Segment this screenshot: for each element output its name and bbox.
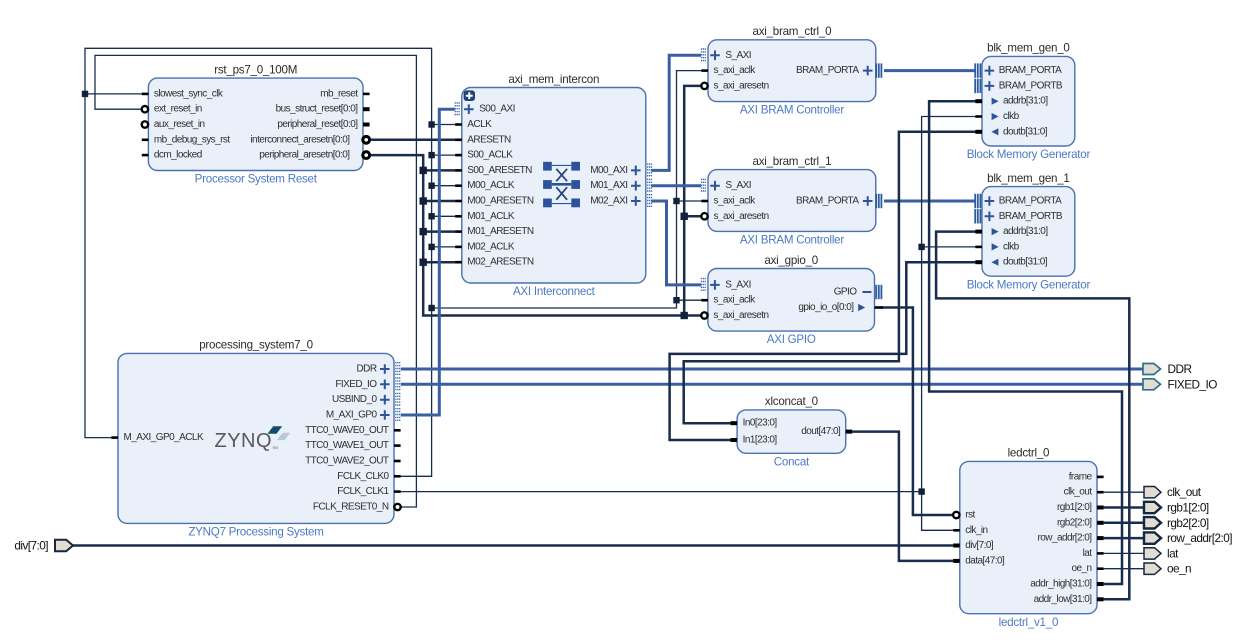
port oe_n bbox=[1144, 562, 1191, 576]
pin s_axi_aresetn ctrl0 bbox=[701, 80, 768, 91]
pin s_axi_aclk ctrl1 bbox=[701, 196, 756, 207]
pin FCLK_CLK1 bbox=[337, 486, 400, 497]
port div[7:0] bbox=[14, 539, 73, 553]
junction M01_ACLK bbox=[428, 213, 434, 219]
svg-text:addr_high[31:0]: addr_high[31:0] bbox=[1030, 579, 1092, 590]
block ledctrl_0 ledctrl_v1_0 bbox=[960, 447, 1097, 629]
pin M01_ARESETN bbox=[455, 226, 534, 237]
svg-text:dcm_locked: dcm_locked bbox=[154, 150, 202, 161]
svg-text:lat: lat bbox=[1167, 546, 1179, 560]
pin rgb1[2:0] bbox=[1057, 502, 1104, 513]
wire net dout to ledctrl data bbox=[852, 432, 953, 561]
block rst_ps7_0_100M Processor System Reset bbox=[148, 63, 363, 185]
svg-text:s_axi_aclk: s_axi_aclk bbox=[713, 295, 756, 306]
pin TTC0_WAVE0_OUT bbox=[305, 425, 401, 436]
pin BRAM_PORTA gen0 bbox=[975, 63, 1062, 77]
pin rgb2[2:0] bbox=[1057, 517, 1104, 528]
junction gpio aresetn bbox=[681, 312, 688, 319]
pin M00_AXI bbox=[590, 163, 651, 177]
svg-text:lat: lat bbox=[1083, 548, 1093, 559]
pin In0[23:0] bbox=[731, 418, 778, 429]
pin M02_AXI bbox=[590, 194, 651, 208]
pin rst bbox=[953, 510, 975, 521]
wire net gen0 doutb to In0 bbox=[684, 132, 976, 423]
svg-text:rgb1[2:0]: rgb1[2:0] bbox=[1167, 501, 1209, 515]
wire rgb1 to port bbox=[1104, 506, 1144, 509]
pin clkb gen0 bbox=[975, 111, 1019, 122]
svg-text:data[47:0]: data[47:0] bbox=[965, 555, 1005, 566]
svg-text:Block Memory Generator: Block Memory Generator bbox=[967, 148, 1091, 161]
pin DDR bbox=[356, 362, 399, 376]
wire FCLK_CLK0 east branch to s_axi_aclk pins bbox=[432, 71, 702, 308]
svg-text:Processor System Reset: Processor System Reset bbox=[195, 173, 318, 186]
svg-text:M01_ARESETN: M01_ARESETN bbox=[467, 226, 534, 237]
wire peripheral_aresetn tap S00_ARESETN bbox=[423, 169, 455, 172]
wire net FCLK_CLK1 trunk bbox=[401, 117, 976, 492]
pin gpio_io_o[0:0] bbox=[798, 302, 883, 313]
svg-text:div[7:0]: div[7:0] bbox=[965, 540, 994, 551]
block axi_bram_ctrl_0 AXI BRAM Controller bbox=[708, 25, 876, 117]
pin USBIND_0 bbox=[332, 393, 400, 407]
block blk_mem_gen_0 Block Memory Generator bbox=[967, 42, 1091, 161]
svg-text:FCLK_CLK1: FCLK_CLK1 bbox=[337, 486, 389, 497]
pin mb_debug_sys_rst bbox=[142, 134, 231, 145]
junction aclk east bbox=[428, 305, 434, 311]
pin BRAM_PORTA gen1 bbox=[975, 194, 1062, 208]
pin TTC0_WAVE1_OUT bbox=[305, 440, 401, 451]
wire peripheral_aresetn north branch to s_axi_aresetn pins bbox=[684, 86, 701, 316]
svg-text:clkb: clkb bbox=[1003, 111, 1020, 122]
svg-text:addrb[31:0]: addrb[31:0] bbox=[1003, 226, 1048, 237]
svg-text:interconnect_aresetn[0:0]: interconnect_aresetn[0:0] bbox=[250, 134, 350, 145]
junction M00_ARESETN bbox=[420, 197, 427, 204]
wire net interconnect_aresetn bbox=[370, 139, 455, 142]
svg-text:USBIND_0: USBIND_0 bbox=[332, 394, 377, 405]
svg-text:mb_reset: mb_reset bbox=[320, 88, 358, 99]
pin S00_ARESETN bbox=[455, 165, 532, 176]
wire FCLK_CLK0 tap axi_gpio_0 s_axi_aclk bbox=[677, 299, 702, 301]
svg-text:M_AXI_GP0_ACLK: M_AXI_GP0_ACLK bbox=[124, 432, 204, 443]
svg-text:GPIO: GPIO bbox=[834, 287, 858, 298]
svg-text:row_addr[2:0]: row_addr[2:0] bbox=[1167, 531, 1232, 545]
wire net addr_high to gen0 addrb bbox=[929, 101, 1122, 584]
wire rgb2 to port bbox=[1104, 522, 1144, 525]
wire oe_n to port bbox=[1104, 568, 1144, 570]
svg-text:M02_AXI: M02_AXI bbox=[590, 196, 627, 207]
svg-text:ledctrl_v1_0: ledctrl_v1_0 bbox=[999, 616, 1059, 629]
junction gpio aclk bbox=[673, 297, 679, 303]
pin ext_reset_in bbox=[142, 104, 202, 115]
wire net M00_AXI to axi_bram_ctrl_0 bbox=[651, 55, 701, 170]
svg-text:clk_in: clk_in bbox=[965, 525, 987, 536]
pin dout[47:0] bbox=[801, 426, 852, 437]
port rgb2[2:0] bbox=[1144, 516, 1209, 530]
pin oe_n bbox=[1071, 563, 1103, 574]
junction ACLK bbox=[428, 121, 434, 127]
svg-text:S00_ARESETN: S00_ARESETN bbox=[467, 165, 532, 176]
port DDR bbox=[1143, 362, 1191, 376]
svg-text:peripheral_reset[0:0]: peripheral_reset[0:0] bbox=[277, 119, 358, 130]
svg-text:AXI GPIO: AXI GPIO bbox=[767, 333, 816, 346]
pin BRAM_PORTB gen1 bbox=[975, 209, 1063, 223]
svg-text:M02_ACLK: M02_ACLK bbox=[467, 241, 515, 252]
svg-text:axi_bram_ctrl_0: axi_bram_ctrl_0 bbox=[753, 25, 832, 38]
svg-text:S00_AXI: S00_AXI bbox=[479, 104, 515, 115]
svg-text:frame: frame bbox=[1069, 471, 1093, 482]
wire net peripheral_aresetn trunk bbox=[370, 155, 702, 315]
svg-text:xlconcat_0: xlconcat_0 bbox=[765, 395, 818, 408]
pin In1[23:0] bbox=[731, 435, 778, 446]
svg-text:gpio_io_o[0:0]: gpio_io_o[0:0] bbox=[798, 302, 854, 313]
pin frame bbox=[1069, 471, 1104, 482]
svg-text:s_axi_aclk: s_axi_aclk bbox=[714, 65, 757, 76]
svg-text:M01_AXI: M01_AXI bbox=[590, 180, 627, 191]
wire FCLK_CLK0 branch to slowest_sync_clk bbox=[85, 93, 142, 95]
pin GPIO bbox=[834, 285, 882, 299]
svg-text:AXI BRAM Controller: AXI BRAM Controller bbox=[740, 234, 845, 247]
pin FCLK_CLK0 bbox=[337, 471, 400, 482]
svg-text:row_addr[2:0]: row_addr[2:0] bbox=[1038, 533, 1093, 544]
svg-text:axi_mem_intercon: axi_mem_intercon bbox=[508, 73, 599, 86]
pin s_axi_aclk gpio bbox=[701, 295, 756, 306]
svg-text:DDR: DDR bbox=[356, 364, 376, 375]
svg-text:addrb[31:0]: addrb[31:0] bbox=[1003, 96, 1048, 107]
svg-text:clkb: clkb bbox=[1003, 241, 1020, 252]
svg-text:processing_system7_0: processing_system7_0 bbox=[199, 339, 313, 352]
pin doutb gen1 bbox=[975, 257, 1047, 268]
port lat bbox=[1144, 546, 1179, 560]
pin addr_high[31:0] bbox=[1030, 579, 1103, 590]
pin addr_low[31:0] bbox=[1034, 594, 1104, 605]
port FIXED_IO bbox=[1143, 377, 1217, 391]
pin data[47:0] bbox=[953, 555, 1005, 566]
svg-text:AXI BRAM Controller: AXI BRAM Controller bbox=[740, 104, 845, 117]
junction M02_ARESETN bbox=[420, 259, 427, 266]
pin S_AXI ctrl1 bbox=[702, 179, 752, 193]
pin peripheral_aresetn[0:0] bbox=[259, 150, 369, 161]
pin addrb gen0 bbox=[975, 96, 1048, 107]
svg-text:Concat: Concat bbox=[774, 455, 810, 468]
svg-text:TTC0_WAVE1_OUT: TTC0_WAVE1_OUT bbox=[305, 440, 389, 451]
svg-text:FIXED_IO: FIXED_IO bbox=[1168, 377, 1218, 391]
pin FCLK_RESET0_N bbox=[313, 502, 401, 513]
svg-text:M00_ACLK: M00_ACLK bbox=[467, 180, 515, 191]
wire net gpio_io_o to ledctrl rst bbox=[881, 308, 953, 516]
pin M00_ARESETN bbox=[455, 196, 534, 207]
wire net M02_AXI to axi_gpio_0 bbox=[651, 201, 701, 285]
pin slowest_sync_clk bbox=[142, 88, 224, 99]
pin s_axi_aresetn ctrl1 bbox=[701, 211, 768, 222]
svg-text:s_axi_aresetn: s_axi_aresetn bbox=[714, 80, 769, 91]
wire net FCLK_CLK0 main loop bbox=[85, 48, 432, 476]
port rgb1[2:0] bbox=[1144, 501, 1209, 515]
svg-text:BRAM_PORTA: BRAM_PORTA bbox=[999, 196, 1062, 207]
svg-text:M00_AXI: M00_AXI bbox=[590, 165, 627, 176]
svg-text:blk_mem_gen_1: blk_mem_gen_1 bbox=[987, 172, 1069, 185]
junction ctrl1 aresetn bbox=[681, 213, 688, 220]
svg-text:aux_reset_in: aux_reset_in bbox=[154, 119, 205, 130]
pin div[7:0] bbox=[953, 540, 994, 551]
svg-text:s_axi_aresetn: s_axi_aresetn bbox=[714, 211, 769, 222]
svg-text:axi_gpio_0: axi_gpio_0 bbox=[764, 254, 818, 267]
wire peripheral_aresetn tap M00_ARESETN bbox=[423, 200, 455, 203]
pin S_AXI gpio bbox=[701, 278, 751, 292]
svg-text:ARESETN: ARESETN bbox=[467, 134, 511, 145]
pin S_AXI ctrl0 bbox=[702, 48, 752, 62]
svg-text:M00_ARESETN: M00_ARESETN bbox=[467, 196, 534, 207]
wire net addr_low to gen1 addrb bbox=[936, 232, 1129, 600]
svg-text:ZYNQ7 Processing System: ZYNQ7 Processing System bbox=[188, 526, 323, 539]
svg-text:BRAM_PORTB: BRAM_PORTB bbox=[999, 211, 1063, 222]
wire net FIXED_IO bbox=[401, 383, 1143, 386]
wire row_addr to port bbox=[1104, 537, 1144, 540]
svg-text:s_axi_aresetn: s_axi_aresetn bbox=[713, 310, 768, 321]
pin S00_ACLK bbox=[455, 150, 513, 161]
svg-text:oe_n: oe_n bbox=[1071, 563, 1091, 574]
svg-text:M_AXI_GP0: M_AXI_GP0 bbox=[326, 410, 378, 421]
svg-text:doutb[31:0]: doutb[31:0] bbox=[1003, 126, 1048, 137]
svg-text:FCLK_CLK0: FCLK_CLK0 bbox=[337, 471, 389, 482]
junction S00_ARESETN bbox=[420, 167, 427, 174]
pin BRAM_PORTB gen0 bbox=[975, 79, 1063, 93]
pin M01_ACLK bbox=[455, 211, 515, 222]
svg-text:M02_ARESETN: M02_ARESETN bbox=[467, 257, 534, 268]
wire FCLK_CLK0 tap axi_bram_ctrl_1 s_axi_aclk bbox=[677, 200, 702, 202]
wire peripheral_aresetn tap axi_bram_ctrl_1 s_axi_aresetn bbox=[684, 215, 701, 218]
svg-text:ext_reset_in: ext_reset_in bbox=[154, 104, 202, 115]
logo ZYNQ bbox=[215, 426, 291, 452]
svg-text:axi_bram_ctrl_1: axi_bram_ctrl_1 bbox=[753, 155, 832, 168]
wire FCLK_CLK0 tap M02_ACLK bbox=[432, 246, 456, 248]
junction clk_in tap bbox=[918, 488, 924, 494]
pin TTC0_WAVE2_OUT bbox=[305, 456, 401, 467]
svg-text:rst_ps7_0_100M: rst_ps7_0_100M bbox=[214, 63, 297, 76]
svg-text:clk_out: clk_out bbox=[1064, 487, 1093, 498]
pin FIXED_IO bbox=[335, 377, 399, 391]
block xlconcat_0 Concat bbox=[737, 395, 846, 468]
svg-text:AXI Interconnect: AXI Interconnect bbox=[513, 285, 596, 298]
svg-text:FCLK_RESET0_N: FCLK_RESET0_N bbox=[313, 502, 389, 513]
svg-text:ledctrl_0: ledctrl_0 bbox=[1008, 447, 1050, 460]
svg-text:ACLK: ACLK bbox=[467, 119, 492, 130]
block axi_bram_ctrl_1 AXI BRAM Controller bbox=[708, 155, 876, 247]
pin M02_ARESETN bbox=[455, 257, 534, 268]
pin aux_reset_in bbox=[142, 119, 205, 130]
pin doutb gen0 bbox=[975, 126, 1047, 137]
svg-text:TM: TM bbox=[273, 445, 278, 450]
wire net DDR bbox=[401, 368, 1143, 371]
pin BRAM_PORTA ctrl0 bbox=[796, 63, 881, 77]
pin M_AXI_GP0_ACLK bbox=[111, 432, 204, 443]
wire lat to port bbox=[1104, 552, 1144, 554]
svg-text:rgb2[2:0]: rgb2[2:0] bbox=[1167, 516, 1209, 530]
pin mb_reset bbox=[320, 88, 369, 99]
svg-text:addr_low[31:0]: addr_low[31:0] bbox=[1034, 594, 1093, 605]
pin lat bbox=[1083, 548, 1104, 559]
pin peripheral_reset[0:0] bbox=[277, 119, 369, 130]
wire FCLK_CLK1 branch to ledctrl clk_in bbox=[922, 492, 954, 531]
wire net gen1 doutb to In1 bbox=[670, 262, 976, 440]
wire FCLK_CLK0 tap M01_ACLK bbox=[432, 215, 456, 217]
wire net M01_AXI to axi_bram_ctrl_1 bbox=[651, 184, 701, 187]
icon crossbar axi_mem_intercon bbox=[543, 162, 580, 208]
pin clk_in bbox=[953, 525, 987, 536]
junction gen1 clkb bbox=[918, 244, 924, 250]
junction ctrl1 aclk bbox=[673, 198, 679, 204]
svg-text:In0[23:0]: In0[23:0] bbox=[743, 418, 778, 429]
svg-text:In1[23:0]: In1[23:0] bbox=[743, 435, 778, 446]
pin clkb gen1 bbox=[975, 241, 1019, 252]
wire net div external to ledctrl bbox=[73, 544, 953, 547]
svg-text:DDR: DDR bbox=[1168, 362, 1192, 376]
pin row_addr[2:0] bbox=[1038, 533, 1104, 544]
pin s_axi_aresetn gpio bbox=[701, 310, 768, 321]
wire peripheral_aresetn tap M02_ARESETN bbox=[423, 261, 455, 264]
svg-text:S_AXI: S_AXI bbox=[725, 279, 751, 290]
wire net M_AXI_GP0 to S00_AXI bbox=[401, 109, 455, 415]
pin s_axi_aclk ctrl0 bbox=[701, 65, 756, 76]
svg-text:BRAM_PORTA: BRAM_PORTA bbox=[796, 65, 859, 76]
svg-text:mb_debug_sys_rst: mb_debug_sys_rst bbox=[154, 134, 230, 145]
svg-text:s_axi_aclk: s_axi_aclk bbox=[714, 196, 757, 207]
svg-text:rgb2[2:0]: rgb2[2:0] bbox=[1057, 517, 1092, 528]
svg-text:peripheral_aresetn[0:0]: peripheral_aresetn[0:0] bbox=[259, 150, 350, 161]
wire net BRAM_PORTA ctrl1 to gen1 bbox=[884, 200, 975, 203]
pin clk_out bbox=[1064, 487, 1104, 498]
svg-text:ZYNQ: ZYNQ bbox=[215, 430, 273, 452]
block processing_system7_0 ZYNQ7 Processing System bbox=[118, 339, 394, 539]
icon expand axi_mem_intercon bbox=[464, 90, 475, 101]
junction M00_ACLK bbox=[428, 183, 434, 189]
block axi_mem_intercon AXI Interconnect bbox=[462, 73, 646, 298]
svg-text:S_AXI: S_AXI bbox=[725, 50, 751, 61]
svg-text:Block Memory Generator: Block Memory Generator bbox=[967, 278, 1091, 291]
svg-text:slowest_sync_clk: slowest_sync_clk bbox=[154, 88, 224, 99]
svg-text:div[7:0]: div[7:0] bbox=[14, 539, 48, 553]
svg-text:TTC0_WAVE0_OUT: TTC0_WAVE0_OUT bbox=[305, 425, 389, 436]
junction slowest_sync_clk tap bbox=[82, 91, 88, 97]
wire FCLK_CLK0 tap ACLK bbox=[432, 124, 456, 126]
svg-text:TTC0_WAVE2_OUT: TTC0_WAVE2_OUT bbox=[305, 456, 389, 467]
wire net BRAM_PORTA ctrl0 to gen0 bbox=[884, 69, 975, 72]
svg-text:oe_n: oe_n bbox=[1167, 562, 1191, 576]
svg-text:dout[47:0]: dout[47:0] bbox=[801, 426, 841, 437]
pin BRAM_PORTA ctrl1 bbox=[796, 194, 881, 208]
pin interconnect_aresetn[0:0] bbox=[250, 134, 369, 145]
junction M02_ACLK bbox=[428, 244, 434, 250]
svg-text:rst: rst bbox=[965, 510, 975, 521]
svg-text:blk_mem_gen_0: blk_mem_gen_0 bbox=[987, 42, 1069, 55]
svg-text:BRAM_PORTA: BRAM_PORTA bbox=[999, 65, 1062, 76]
wire FCLK_CLK0 tap S00_ACLK bbox=[432, 154, 456, 156]
port clk_out bbox=[1144, 485, 1202, 499]
wire clk_out to port bbox=[1104, 491, 1144, 493]
svg-text:clk_out: clk_out bbox=[1167, 485, 1202, 499]
svg-text:rgb1[2:0]: rgb1[2:0] bbox=[1057, 502, 1092, 513]
junction S00_ACLK bbox=[428, 152, 434, 158]
block blk_mem_gen_1 Block Memory Generator bbox=[967, 172, 1091, 291]
pin M00_ACLK bbox=[455, 180, 515, 191]
pin M02_ACLK bbox=[455, 241, 515, 252]
wire net FCLK_RESET0_N to ext_reset_in bbox=[95, 55, 416, 507]
pin M01_AXI bbox=[590, 179, 651, 193]
pin ARESETN bbox=[455, 134, 511, 145]
wire FCLK_CLK0 tap M00_ACLK bbox=[432, 185, 456, 187]
pin bus_struct_reset[0:0] bbox=[276, 104, 370, 115]
svg-text:BRAM_PORTB: BRAM_PORTB bbox=[999, 80, 1063, 91]
pin ACLK bbox=[455, 119, 492, 130]
junction M01_ARESETN bbox=[420, 228, 427, 235]
wire peripheral_aresetn tap M01_ARESETN bbox=[423, 230, 455, 233]
block axi_gpio_0 AXI GPIO bbox=[708, 254, 875, 346]
pin S00_AXI bbox=[455, 102, 515, 116]
svg-text:BRAM_PORTA: BRAM_PORTA bbox=[796, 196, 859, 207]
svg-text:S_AXI: S_AXI bbox=[725, 180, 751, 191]
svg-text:FIXED_IO: FIXED_IO bbox=[335, 379, 377, 390]
port row_addr[2:0] bbox=[1144, 531, 1232, 545]
pin addrb gen1 bbox=[975, 226, 1048, 237]
svg-text:bus_struct_reset[0:0]: bus_struct_reset[0:0] bbox=[276, 104, 359, 115]
wire FCLK_CLK1 tap blk_mem_gen_1 clkb bbox=[922, 246, 976, 248]
svg-text:S00_ACLK: S00_ACLK bbox=[467, 150, 513, 161]
pin M_AXI_GP0 bbox=[326, 408, 400, 422]
pin dcm_locked bbox=[142, 150, 202, 161]
svg-text:doutb[31:0]: doutb[31:0] bbox=[1003, 257, 1048, 268]
svg-text:M01_ACLK: M01_ACLK bbox=[467, 211, 515, 222]
